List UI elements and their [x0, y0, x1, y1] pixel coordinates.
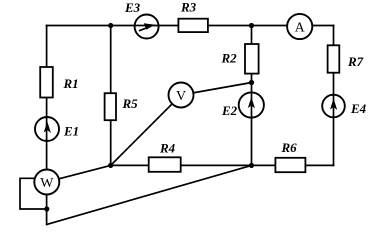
wire middle-right branch vertical R2/E2 [251, 26, 253, 166]
svg-text:R4: R4 [159, 141, 176, 156]
wire middle branch vertical R5 [110, 26, 112, 166]
resistor R7 [328, 45, 340, 72]
resistor R6 [275, 158, 305, 172]
wire W voltage-coil bracket [20, 178, 47, 209]
node W bottom junction [44, 206, 49, 211]
svg-text:E4: E4 [350, 101, 367, 116]
wire left branch vertical [46, 26, 48, 225]
resistor R1 [40, 67, 53, 98]
resistor R3 [178, 19, 208, 32]
svg-text:E3: E3 [124, 0, 141, 15]
svg-text:R6: R6 [281, 140, 298, 155]
wire top horizontal [47, 25, 334, 27]
resistor R5 [105, 93, 116, 120]
svg-text:R1: R1 [63, 76, 79, 91]
node R2/E2 junction [249, 80, 254, 85]
svg-text:R3: R3 [180, 0, 197, 15]
EMF source E1 [35, 117, 59, 141]
svg-text:R7: R7 [347, 54, 364, 69]
svg-text:W: W [40, 176, 54, 191]
EMF source E2 [239, 92, 264, 117]
svg-text:E1: E1 [63, 124, 79, 139]
node top-right junction [249, 23, 254, 28]
wire bottom horizontal [111, 164, 334, 166]
resistor R4 [149, 157, 181, 172]
resistor R2 [245, 44, 259, 74]
EMF source E4 [322, 95, 345, 118]
svg-text:V: V [176, 89, 186, 104]
EMF source E3 [135, 15, 159, 39]
svg-text:A: A [295, 21, 306, 36]
wire long bottom diagonal [47, 165, 252, 224]
svg-text:R5: R5 [122, 96, 139, 111]
voltmeter V [169, 83, 194, 108]
wire right branch vertical R7/E4 [333, 26, 335, 166]
wire diagonal V to R2/E2 node [181, 83, 252, 96]
wire diagonal W to bottom junction [47, 165, 111, 182]
svg-text:R2: R2 [221, 51, 238, 66]
node top-left junction [108, 23, 113, 28]
node bottom-left junction [108, 163, 113, 168]
node bottom-right junction [249, 163, 254, 168]
wattmeter W [34, 170, 59, 195]
wire diagonal junction to V [111, 95, 181, 165]
ammeter A [287, 14, 312, 39]
svg-text:E2: E2 [221, 103, 238, 118]
